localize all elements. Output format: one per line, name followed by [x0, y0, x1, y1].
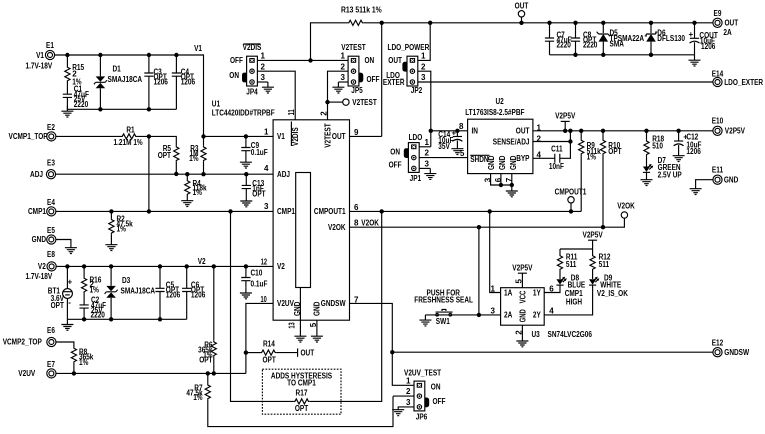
capacitor C12 [678, 131, 680, 141]
svg-text:1%: 1% [587, 153, 596, 162]
svg-text:1Y: 1Y [533, 288, 541, 297]
resistor R12 [592, 249, 594, 255]
svg-text:GND: GND [487, 155, 496, 170]
svg-text:U1: U1 [212, 100, 221, 109]
svg-text:3: 3 [406, 398, 411, 407]
svg-text:CMP1: CMP1 [277, 207, 295, 216]
wire U2 GND pins bus [491, 174, 512, 185]
resistor R10 [602, 131, 604, 139]
ground U1 pin 13 [294, 331, 306, 342]
svg-text:ON: ON [229, 71, 239, 80]
svg-text:OPT: OPT [51, 301, 64, 310]
capacitor C13 [245, 174, 247, 185]
ground U1 pin 5 [311, 331, 323, 342]
svg-text:OPT: OPT [295, 404, 308, 413]
svg-text:3: 3 [425, 160, 430, 169]
svg-text:E8: E8 [47, 250, 55, 259]
ground below C14 [451, 144, 463, 155]
svg-text:2.5V UP: 2.5V UP [658, 170, 683, 179]
svg-text:DFLS130: DFLS130 [657, 34, 685, 43]
svg-text:SMAJ18CA: SMAJ18CA [121, 287, 156, 296]
svg-text:2220: 2220 [74, 100, 89, 109]
wire E2 to R1 [56, 135, 121, 137]
svg-text:E10: E10 [712, 116, 724, 125]
junctions on V2UV wire [72, 371, 216, 375]
svg-text:3: 3 [341, 73, 346, 82]
ground at E5 [65, 243, 77, 254]
svg-text:BYP: BYP [516, 154, 530, 163]
svg-text:CMP1: CMP1 [28, 207, 46, 216]
svg-text:1: 1 [425, 138, 430, 147]
wire E5 to ground [56, 240, 71, 243]
resistor R3 [203, 136, 205, 145]
junction SENSE [568, 139, 572, 143]
diode D7 LED GREEN [646, 156, 648, 167]
ground below U2 [506, 186, 518, 197]
svg-text:3: 3 [264, 202, 269, 211]
ground at JP5 [332, 82, 344, 93]
wire V1 to U1 pin 1 [204, 135, 274, 137]
svg-text:GND: GND [518, 309, 527, 322]
svg-text:OUT: OUT [515, 2, 529, 11]
svg-text:E14: E14 [712, 69, 724, 78]
svg-text:-: - [68, 298, 71, 307]
terminal E3 [46, 170, 55, 179]
svg-text:C11: C11 [551, 144, 563, 153]
junction R14 [244, 350, 248, 354]
power flag V2P5V at U2 [564, 121, 566, 130]
svg-text:V2OK: V2OK [361, 218, 379, 227]
svg-text:2220: 2220 [557, 41, 572, 50]
svg-text:V2DIS: V2DIS [243, 43, 262, 52]
wire V2OK from U1 pin 8 [350, 226, 604, 228]
svg-text:OUT: OUT [332, 132, 346, 141]
svg-text:R17: R17 [296, 388, 308, 397]
capacitor C2 [80, 305, 89, 308]
svg-text:+: + [689, 30, 694, 39]
svg-text:13: 13 [287, 322, 296, 329]
svg-text:V2UV: V2UV [277, 299, 294, 308]
battery BT1 [66, 266, 68, 288]
svg-text:1%: 1% [189, 154, 198, 163]
wire V1 section ground rail [67, 108, 176, 110]
capacitor C9 [245, 136, 247, 147]
junctions on V2P5V rail [563, 129, 681, 133]
svg-text:E3: E3 [47, 158, 55, 167]
wire E6 to R8 [56, 342, 74, 347]
capacitor C5 [159, 266, 161, 288]
svg-text:V1: V1 [36, 51, 44, 60]
test point OUT [521, 17, 523, 23]
svg-text:V2UV: V2UV [18, 369, 35, 378]
wire U2 SENSE/ADJ loop [533, 141, 571, 143]
junctions on OUT rail [380, 21, 697, 25]
wire U3 GND pin [521, 325, 523, 336]
svg-text:VCMP2_TOP: VCMP2_TOP [3, 338, 43, 347]
svg-text:OUT: OUT [301, 348, 315, 357]
capacitor C7 [549, 23, 551, 38]
junction JP2/JP1 vertical at IN [429, 129, 433, 133]
wire V2P5V from U2 OUT to E10 [533, 130, 713, 132]
resistor R15 [66, 55, 68, 66]
svg-text:2A: 2A [504, 311, 512, 320]
svg-text:GND: GND [498, 155, 507, 170]
svg-text:E1: E1 [46, 41, 54, 50]
svg-text:1%: 1% [193, 393, 202, 402]
svg-text:510: 510 [652, 142, 663, 151]
svg-text:1.21M 1%: 1.21M 1% [114, 138, 143, 147]
junction C14 [455, 129, 459, 133]
svg-text:GND: GND [32, 235, 47, 244]
svg-text:1%: 1% [117, 225, 126, 234]
capacitor C4 [175, 55, 177, 73]
svg-text:JP2: JP2 [411, 86, 423, 95]
svg-text:V2OK: V2OK [617, 202, 635, 211]
svg-text:OPT: OPT [199, 355, 212, 364]
junction V2DIS net to R13 [308, 58, 312, 62]
wire to V2TEST test point [328, 101, 343, 103]
svg-text:V1: V1 [277, 132, 285, 141]
diode D5 TVS TPSMA22A [602, 23, 604, 33]
svg-text:2Y: 2Y [533, 311, 541, 320]
resistor R5 [174, 146, 179, 162]
svg-text:4: 4 [549, 307, 554, 316]
terminal E11 [713, 175, 722, 184]
svg-text:OFF: OFF [230, 56, 243, 65]
jumper JP5 [348, 56, 363, 86]
wire LDO_EXTER to E14 [418, 81, 713, 83]
wire U1 GND pin 13 (exposed pad) [299, 288, 301, 332]
svg-text:IN: IN [472, 127, 479, 136]
resistor R14 [246, 352, 261, 354]
terminal E8 [47, 262, 56, 271]
capacitor COUT [694, 23, 696, 39]
resistor R6 [213, 266, 215, 340]
svg-text:2: 2 [261, 62, 266, 71]
svg-text:V2P5V: V2P5V [725, 127, 746, 136]
ground below BT1 [61, 319, 73, 330]
svg-text:1%: 1% [193, 188, 202, 197]
svg-text:0.1uF: 0.1uF [251, 279, 268, 288]
svg-text:OUT: OUT [516, 127, 530, 136]
svg-text:E7: E7 [47, 360, 55, 369]
svg-text:JP5: JP5 [351, 86, 363, 95]
svg-text:2: 2 [406, 387, 411, 396]
wire JP6 pin2 stub [393, 395, 414, 397]
wire JP2 pin2 down to U2 IN and JP1 [418, 71, 431, 147]
svg-text:LDO: LDO [409, 133, 423, 142]
wire R7 bottom to JP6 pin 2 [208, 396, 393, 426]
svg-text:R13 511k 1%: R13 511k 1% [341, 5, 382, 14]
junctions on ground rail [98, 107, 151, 111]
svg-text:9: 9 [354, 128, 359, 137]
capacitor C10 [245, 266, 247, 277]
svg-text:OFF: OFF [433, 397, 446, 406]
svg-text:ON: ON [390, 148, 400, 157]
svg-text:SMAJ18CA: SMAJ18CA [108, 75, 143, 84]
svg-text:SN74LVC2G06: SN74LVC2G06 [548, 330, 593, 339]
svg-text:8: 8 [459, 122, 464, 131]
svg-text:1.7V-18V: 1.7V-18V [26, 62, 53, 71]
capacitor C11 [555, 154, 560, 163]
svg-text:6: 6 [494, 177, 503, 182]
ground at JP1 [424, 168, 436, 179]
svg-text:ADJ: ADJ [30, 170, 43, 179]
junctions on ADJ wire [174, 172, 248, 177]
svg-text:E12: E12 [712, 338, 724, 347]
wire V2P5V to R11/R12 [560, 248, 593, 250]
svg-text:4: 4 [264, 164, 269, 173]
svg-text:7: 7 [505, 177, 514, 182]
svg-text:TO CMP1: TO CMP1 [287, 378, 316, 387]
wire U1 OUT pin stub [350, 135, 382, 137]
svg-text:E9: E9 [714, 9, 722, 18]
junctions on V2OK wire [477, 225, 606, 229]
svg-text:SHDN: SHDN [470, 155, 489, 164]
svg-text:1: 1 [341, 52, 346, 61]
capacitor C14 [456, 131, 458, 137]
junctions on V2 wire [65, 264, 248, 268]
capacitor C6 [186, 266, 188, 288]
terminal E10 [713, 126, 722, 135]
resistor R7 [207, 373, 209, 383]
svg-text:HIGH: HIGH [566, 297, 582, 306]
svg-text:V2TEST: V2TEST [324, 123, 333, 148]
wire E11 to ground [696, 180, 714, 184]
junction C9 [244, 134, 248, 138]
svg-text:D1: D1 [113, 65, 122, 74]
capacitor C3 [148, 55, 150, 73]
ground at JP4 [262, 82, 274, 93]
wire U1 GND pin 5 [316, 320, 318, 331]
svg-text:V2: V2 [277, 262, 285, 271]
svg-text:SW1: SW1 [436, 317, 450, 326]
jumper JP6 [414, 381, 429, 411]
svg-text:1206: 1206 [191, 290, 206, 299]
svg-text:1206: 1206 [686, 147, 701, 156]
resistor R16 [83, 266, 85, 277]
wire ADJ from E3 to U1 pin 4 [55, 173, 273, 175]
wire CMPOUT1 from U1 pin 6 [350, 210, 582, 212]
dashed box ADDS HYSTERESIS [262, 369, 341, 414]
svg-text:ON: ON [431, 382, 441, 391]
svg-text:1.7V-18V: 1.7V-18V [26, 272, 53, 281]
svg-text:6: 6 [354, 203, 359, 212]
svg-text:V2OK: V2OK [328, 223, 346, 232]
junction V2TEST test point [325, 100, 329, 104]
ground at JP6 [392, 410, 404, 416]
svg-text:CMPOUT1: CMPOUT1 [555, 187, 587, 196]
svg-text:ADJ: ADJ [277, 170, 290, 179]
svg-text:0.1uF: 0.1uF [251, 148, 268, 157]
junction GNDSW to E12 [390, 350, 394, 354]
ground below COUT [689, 55, 701, 66]
svg-text:OUT: OUT [725, 19, 739, 28]
terminal E12 [713, 348, 722, 357]
svg-text:V1: V1 [194, 44, 202, 53]
resistor R13 [311, 23, 348, 61]
svg-text:OUT: OUT [388, 56, 402, 65]
svg-text:V2TEST: V2TEST [352, 98, 377, 107]
wire JP1 pin3 to ground [419, 167, 430, 169]
svg-text:SMA: SMA [610, 40, 625, 49]
svg-text:FRESHNESS SEAL: FRESHNESS SEAL [414, 296, 473, 305]
junction SW1 to U3 2A [477, 313, 481, 317]
ground below C1 [61, 106, 73, 117]
svg-text:CMPOUT1: CMPOUT1 [314, 207, 346, 216]
diode D3 TVS [110, 266, 112, 285]
junction VCMP1_TOP node [147, 134, 151, 138]
wire GNDSW from U1 pin 7 to JP6 pin 1 [350, 303, 415, 385]
terminal E4 [47, 207, 56, 216]
svg-text:E11: E11 [712, 165, 724, 174]
svg-text:10nF: 10nF [549, 162, 564, 171]
svg-text:+: + [68, 277, 73, 286]
svg-text:V2_IS_OK: V2_IS_OK [597, 289, 628, 298]
svg-text:12: 12 [261, 258, 268, 267]
svg-text:EXTER: EXTER [383, 78, 405, 87]
svg-text:R1: R1 [126, 125, 135, 134]
svg-text:3: 3 [421, 73, 426, 82]
wire V2UV from E7 [56, 372, 246, 374]
svg-text:OFF: OFF [367, 75, 380, 84]
capacitor C1 [63, 94, 72, 97]
junctions on CMP1 wire [109, 209, 232, 213]
svg-text:1: 1 [406, 376, 411, 385]
resistor R11 [559, 249, 561, 255]
junctions on V2 ground rail [82, 317, 162, 321]
svg-text:E6: E6 [47, 326, 55, 335]
svg-text:E2: E2 [47, 123, 55, 132]
wire SENSE to C11 [560, 131, 571, 159]
svg-text:1: 1 [421, 52, 426, 61]
diode D8 LED BLUE [556, 277, 566, 286]
terminal E7 [47, 369, 56, 378]
junctions on OUT ground rail [573, 53, 653, 57]
svg-text:LT1763IS8-2.5#PBF: LT1763IS8-2.5#PBF [465, 108, 524, 117]
wire JP6 pin3 to ground [398, 407, 414, 410]
svg-text:JP1: JP1 [410, 174, 422, 183]
ground below C12 [673, 151, 685, 162]
resistor R9 [580, 131, 582, 139]
svg-text:OFF: OFF [389, 161, 402, 170]
capacitor C8 [575, 23, 577, 38]
wire JP1 pin1 up to IN [419, 146, 431, 148]
U2 pin name SHDN [470, 154, 489, 156]
svg-text:1: 1 [261, 52, 266, 61]
junction U2 GND bus [499, 183, 503, 187]
svg-text:GND: GND [313, 301, 322, 316]
svg-text:1%: 1% [90, 286, 99, 295]
jumper JP1 [404, 143, 419, 173]
svg-text:GND: GND [509, 155, 518, 170]
wire CMP1 from E4 to U1 pin 3 [56, 210, 274, 212]
wire JP4 pin2 to U1 V2DIS pin 11 [257, 71, 295, 120]
svg-text:U3: U3 [532, 330, 541, 339]
svg-text:V2: V2 [198, 257, 206, 266]
svg-text:R14: R14 [263, 340, 275, 349]
resistor R1 [121, 134, 137, 139]
svg-text:1: 1 [491, 284, 496, 293]
label V2DIS [243, 43, 260, 45]
svg-text:GND: GND [724, 176, 739, 185]
svg-text:1A: 1A [504, 288, 512, 297]
svg-text:1: 1 [264, 127, 269, 136]
power flag V2P5V at U3 [521, 273, 523, 288]
svg-text:V2: V2 [38, 262, 46, 271]
diode D1 TVS [99, 55, 101, 76]
svg-text:V2P5V: V2P5V [583, 230, 604, 239]
svg-text:SENSE/ADJ: SENSE/ADJ [493, 137, 530, 146]
wire CMP1 to R17 [231, 211, 294, 401]
wire U2 BYP to C11 [533, 157, 555, 159]
wire U2 GND pin 7 [511, 174, 513, 185]
terminal E14 [713, 77, 722, 86]
wire V1 from E1 to U1 [54, 55, 203, 136]
svg-text:C10: C10 [251, 269, 263, 278]
svg-text:JP4: JP4 [246, 88, 258, 97]
jumper JP2 [402, 56, 417, 86]
svg-text:2220: 2220 [91, 311, 106, 320]
svg-text:2: 2 [421, 62, 426, 71]
svg-text:V2P5V: V2P5V [555, 112, 576, 121]
op-amp U3 SN74LVC2G06 body [501, 288, 545, 326]
wire U3 1Y to D8 [544, 288, 560, 292]
svg-text:BLUE: BLUE [568, 280, 586, 289]
svg-text:JP6: JP6 [416, 412, 428, 421]
wire OUT net U1 pin 9 to E9 [382, 23, 713, 137]
ground at E11 [690, 184, 702, 195]
jumper JP4 [242, 56, 257, 86]
test point V2TEST [343, 99, 349, 105]
svg-text:OPT: OPT [252, 189, 265, 198]
wire JP4 pin3 to ground [257, 81, 268, 83]
svg-text:511: 511 [566, 260, 577, 269]
svg-text:LDO_EXTER: LDO_EXTER [724, 78, 763, 87]
resistor R2 [110, 211, 112, 218]
svg-text:GNDSW: GNDSW [724, 348, 749, 357]
svg-text:LTC4420IDD#TRPBF: LTC4420IDD#TRPBF [212, 109, 275, 118]
svg-text:E5: E5 [47, 226, 55, 235]
wire U2 GND pin 6 [500, 174, 502, 185]
svg-text:V2P5V: V2P5V [512, 263, 533, 272]
wire JP5 pin3 to ground [338, 81, 348, 83]
svg-text:2: 2 [425, 149, 430, 158]
svg-text:OPT: OPT [263, 355, 276, 364]
wire R1 to R5 [137, 136, 176, 145]
ground below D7 [641, 175, 653, 186]
diode D9 LED WHITE [589, 277, 599, 286]
svg-text:WHITE: WHITE [600, 280, 621, 289]
wire VCMP1_TOP node down to CMP1 [148, 136, 150, 211]
svg-text:OPT: OPT [158, 151, 171, 160]
svg-text:3: 3 [491, 307, 496, 316]
op-amp U1 LTC4420 body [273, 120, 349, 320]
svg-text:D3: D3 [122, 276, 131, 285]
terminal E5 [47, 235, 56, 244]
junction U2 GND at pin 7 [510, 183, 514, 187]
wire U1 V2UV pin to divider [246, 303, 273, 373]
svg-text:ON: ON [365, 56, 375, 65]
terminal E2 [47, 132, 56, 141]
svg-text:1206: 1206 [181, 77, 196, 86]
test point CMPOUT1 [570, 203, 572, 211]
svg-text:1206: 1206 [166, 290, 181, 299]
terminal E9 [713, 18, 722, 27]
svg-text:1206: 1206 [701, 42, 716, 51]
svg-text:1%: 1% [79, 358, 88, 367]
svg-text:VCC: VCC [518, 290, 527, 303]
